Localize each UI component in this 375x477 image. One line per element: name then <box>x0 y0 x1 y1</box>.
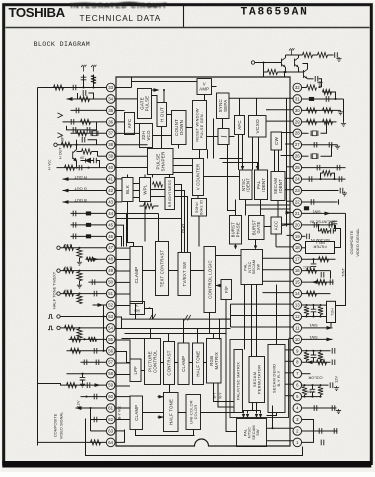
resistor pin49 v <box>77 272 82 281</box>
block VCXO <box>249 116 267 138</box>
wire lpf-picture <box>141 370 145 372</box>
pin 57 <box>106 358 115 367</box>
wire hatch marks b <box>185 315 191 321</box>
wire pin40 inner <box>116 168 148 175</box>
wire ht2 arrow b <box>158 416 164 418</box>
block COUNT DOWN <box>172 111 187 145</box>
wire pin64 inner <box>116 430 125 443</box>
block V COUNTER <box>193 159 204 196</box>
wire pin53 <box>61 315 107 317</box>
pin 29 <box>293 118 302 127</box>
wire pin25 <box>302 167 346 169</box>
block BLK <box>122 178 133 202</box>
wire rgbm-palntsc b <box>218 383 234 407</box>
wire acc right <box>282 224 294 226</box>
pin 20 <box>293 221 302 230</box>
pin 3 <box>293 415 302 424</box>
pin 16 <box>293 266 302 275</box>
pin 50 <box>106 278 115 287</box>
block CW <box>271 132 282 150</box>
block SYNC SEPA <box>217 93 230 119</box>
wire pin45 inner <box>116 225 124 246</box>
wire pin20 <box>302 224 334 226</box>
wire pin22 <box>302 201 338 203</box>
wire pin46 <box>71 235 107 237</box>
wire vco-count <box>153 135 172 137</box>
wire sw mid down c <box>256 285 258 357</box>
wire center verticals <box>230 304 232 327</box>
wire vcxo down b <box>258 137 260 170</box>
block LPF <box>130 359 141 382</box>
wire ident down b <box>260 200 262 216</box>
wire pin32 up <box>319 79 322 87</box>
pin 19 <box>293 232 302 241</box>
wire emitters join <box>285 67 287 72</box>
wire drop contrast <box>168 334 170 342</box>
pin 10 <box>293 335 302 344</box>
wire v-amp to sync <box>212 86 217 88</box>
wire pin20 stub <box>282 223 294 225</box>
wire pin35 afc <box>116 110 125 112</box>
wire hbus 1 <box>122 318 231 320</box>
wire pin14 <box>302 293 331 295</box>
wire halftone-rgbm <box>204 362 207 364</box>
wire pin22 stub <box>287 200 294 202</box>
pin 22 <box>293 198 302 207</box>
wire xray right <box>145 309 153 320</box>
wire blk down <box>128 202 134 247</box>
block integrator <box>218 129 229 145</box>
block UNI-COLOR <box>186 395 201 430</box>
block H OUT <box>157 103 167 127</box>
wire uni-palm <box>201 412 235 414</box>
wire pulse-shaper left <box>116 155 148 157</box>
pin 47 <box>106 243 115 252</box>
block BELL FILTER <box>306 242 335 254</box>
wire count-reset <box>186 127 193 129</box>
pin 38 <box>106 140 115 149</box>
wire afc2 down b <box>242 135 244 171</box>
block RGB MATRIX <box>207 339 222 384</box>
wire cw down <box>274 150 276 172</box>
wire rgb bus c <box>175 197 188 253</box>
wire pin42 G OUT <box>63 190 107 192</box>
wire tvext-logic <box>191 270 205 272</box>
block CLAMP 2 <box>178 343 189 385</box>
pin 36 <box>106 118 115 127</box>
wire id down <box>198 216 200 247</box>
pin 53 <box>106 312 115 321</box>
block 32H VCO <box>140 124 153 148</box>
wire pin36 <box>63 121 107 123</box>
left vertical rail <box>37 88 39 446</box>
pin 58 <box>106 369 115 378</box>
pin 18 <box>293 243 302 252</box>
wire pin31 upper <box>323 92 336 99</box>
wire burstphase up <box>235 200 237 216</box>
wire clamp2-halftone <box>189 362 193 364</box>
wire pin1 cap <box>321 440 324 446</box>
wire base rail <box>263 63 265 73</box>
crystal pin28 <box>302 132 309 134</box>
wire pin50 <box>89 281 107 283</box>
wire pin15 <box>302 281 334 283</box>
wire top rail <box>286 54 303 56</box>
pin 7 <box>293 369 302 378</box>
wire pin39 <box>98 155 107 157</box>
pin 14 <box>293 289 302 298</box>
block HALF TONE 1 <box>193 343 204 385</box>
pin 43 <box>106 198 115 207</box>
wire pin27 <box>302 144 338 146</box>
transistor H OUT <box>76 145 78 150</box>
wire pin44 inner <box>116 214 127 247</box>
wire pin36 afc <box>116 121 125 123</box>
pin 40 <box>106 163 115 172</box>
wire wpl-bright link <box>151 189 166 191</box>
wire pin30 vcxo <box>266 109 293 111</box>
wire right lower stubs <box>263 280 294 282</box>
block HGL <box>327 301 336 322</box>
wire pin41 R OUT <box>63 178 107 180</box>
wire afc2 up <box>239 98 241 115</box>
wire hatch marks a <box>150 314 156 320</box>
wire pin47 R IN <box>61 247 107 249</box>
resistor pin33 b <box>93 75 95 88</box>
pin 15 <box>293 278 302 287</box>
wire pin47 clamp <box>116 247 130 249</box>
wire pin29 <box>302 121 337 123</box>
wire bus 218 <box>116 218 182 220</box>
wire burstgate down <box>255 240 257 247</box>
wire pin27 inner <box>285 143 293 145</box>
wire sw2 right a <box>267 427 294 429</box>
wire reset-integ <box>207 136 219 138</box>
block HALF TONE 2 <box>164 393 179 432</box>
wire pin60 <box>81 396 107 398</box>
block TV EXT SW <box>178 253 191 296</box>
wire pin59 <box>38 384 107 386</box>
wire pin61 clamp3 <box>116 407 130 409</box>
wire pin59 stub <box>116 385 130 387</box>
wire hout-count <box>167 114 172 116</box>
pin 61 <box>106 404 115 413</box>
wire cw down b <box>278 150 280 172</box>
wire reset down b <box>207 150 209 159</box>
wire drop picture <box>150 329 152 339</box>
wire pin37 vco <box>116 132 140 134</box>
wire xray left <box>116 305 130 307</box>
block SECAM IDENT <box>271 172 285 201</box>
wire pin21 arrow <box>302 212 346 214</box>
pin 34 <box>106 95 115 104</box>
wire pin57 lpf <box>116 362 130 364</box>
wire pin36 lower <box>67 122 97 130</box>
pin 46 <box>106 232 115 241</box>
resistor pin51 v <box>77 295 82 304</box>
pin 8 <box>293 358 302 367</box>
offpage mark pin36 <box>58 113 63 118</box>
block PULSE SHAPER <box>148 149 174 175</box>
wire perm down <box>252 403 254 411</box>
wire logic-ff <box>216 285 222 287</box>
wire afc-vco <box>135 123 140 125</box>
resistor top b <box>318 52 328 57</box>
wire pin57 <box>81 361 107 363</box>
wire pin16 <box>302 270 331 272</box>
pin 5 <box>293 392 302 401</box>
wire rgb bus b <box>175 191 185 253</box>
offpage mark pin38 <box>58 133 63 138</box>
wire bell right <box>335 225 341 248</box>
wire pin43 B OUT <box>63 201 107 203</box>
block V AMP <box>197 79 212 95</box>
block PAL NTSC SECAM SW mid <box>241 250 263 285</box>
block BURST GATE <box>249 216 265 240</box>
wire ident down c <box>277 201 279 218</box>
wire shaper-vcounter <box>173 165 193 167</box>
wire ident feed a <box>220 159 243 167</box>
wire pin38 shaper <box>116 144 148 146</box>
pin 60 <box>106 392 115 401</box>
switch pin12 <box>302 315 327 317</box>
wire pin63 stub <box>116 430 125 432</box>
pin 39 <box>106 152 115 161</box>
wire sw2 right b <box>272 406 274 429</box>
SECAM section enclosure <box>230 340 289 418</box>
wire ht2-uni <box>178 412 186 414</box>
wire enclosure drop <box>219 319 221 339</box>
wire drop clamp2 <box>183 319 185 343</box>
wire pin63 <box>91 430 107 432</box>
wire pin58 lpf <box>116 374 130 376</box>
block SECAM DEMO <box>268 345 285 413</box>
pin 59 <box>106 381 115 390</box>
wire drop b <box>284 72 286 77</box>
wire pin7 <box>302 373 311 375</box>
crystal pin26 <box>302 155 309 157</box>
wire ident bus a <box>246 200 290 206</box>
wire syncsepa down <box>213 119 215 159</box>
wire pin54 bus <box>116 328 122 330</box>
pin 6 <box>293 381 302 390</box>
page border bottom band <box>2 461 371 468</box>
wire ff down <box>226 300 237 432</box>
pin 11 <box>293 324 302 333</box>
wire vcount-id <box>197 196 199 199</box>
wire pin40 <box>57 167 107 169</box>
block TEXT CONTRAST <box>156 242 169 296</box>
wire reset-vcount <box>199 150 201 159</box>
capacitor pin38 up <box>76 140 78 145</box>
wire pin5 <box>302 396 321 398</box>
pin 32 <box>293 83 302 92</box>
wire contrast-clamp2 <box>175 362 179 364</box>
wire pin62 clamp3 <box>116 419 130 421</box>
rail right upper <box>343 99 345 122</box>
wire picture-contrast <box>161 362 164 364</box>
wire pin56 lpf <box>116 352 130 363</box>
wire vcount right <box>204 176 240 178</box>
wire ff arrow <box>216 284 221 288</box>
wire demo up <box>276 285 278 345</box>
wire hbus 2 <box>122 328 231 330</box>
wire pin44 ext <box>158 214 160 242</box>
transistor Q2 <box>295 58 299 68</box>
wire rgbout stubs <box>116 178 122 180</box>
wire pin56 <box>67 350 107 352</box>
diode 3V cluster <box>81 160 86 162</box>
pin 45 <box>106 221 115 230</box>
switch pin11 <box>302 327 333 329</box>
wire gate-pulse right <box>152 96 158 103</box>
wire rail mid <box>313 54 318 56</box>
pin 42 <box>106 186 115 195</box>
pin 51 <box>106 289 115 298</box>
network pin6 <box>302 384 329 386</box>
pin 48 <box>106 255 115 264</box>
wire wpl-brightness res <box>153 182 163 187</box>
pin 2 <box>293 427 302 436</box>
wire pin37 <box>71 132 107 134</box>
pin 1 <box>293 438 302 447</box>
wire rgb bus a <box>175 185 182 253</box>
wire pin55 inner <box>116 340 130 359</box>
wire pin25 inner <box>287 166 294 168</box>
wire pin51 clamp <box>116 293 130 295</box>
wire ident feed b <box>223 163 258 167</box>
wire hout-shaper <box>161 127 163 149</box>
wire drop rgbmatrix <box>213 334 215 339</box>
wire pin17 <box>302 258 336 260</box>
wire pin20 rc branch <box>319 225 321 231</box>
wire res center <box>144 203 154 208</box>
wire vcxo down a <box>252 137 254 170</box>
wire bottom link <box>136 430 195 436</box>
block BRIGHTNESS <box>165 178 175 210</box>
wire ident down a <box>245 200 247 216</box>
wire blk top <box>127 175 129 178</box>
wire hbus 3 <box>125 333 227 335</box>
block PAL NTSC MATRIX <box>234 350 243 413</box>
capacitor pin33 a <box>83 75 85 88</box>
wire pin64 b <box>38 441 86 443</box>
wire right inner vertical <box>286 98 288 226</box>
block WPL <box>140 178 151 202</box>
pin 31 <box>293 95 302 104</box>
capacitor pin34 top <box>77 93 79 99</box>
resistor top a <box>303 52 313 57</box>
pin 13 <box>293 301 302 310</box>
transistor Q3 <box>304 69 308 79</box>
wire drop a <box>263 72 265 77</box>
wire pin18 bell <box>302 247 306 249</box>
wire pin48 arrow <box>86 258 107 260</box>
wire pin33 inner <box>116 87 132 89</box>
wire pin62 <box>91 418 107 420</box>
wire pin1 stub <box>267 440 294 442</box>
wire top bend <box>131 77 133 88</box>
wire pin8 <box>302 361 331 363</box>
pin 62 <box>106 415 115 424</box>
wire pin18 stub <box>275 234 277 247</box>
pin 52 <box>106 301 115 310</box>
wire pin49 clamp <box>116 270 130 272</box>
wire contrast-ht2 <box>169 385 171 393</box>
wire sw right stubs <box>263 257 294 259</box>
wire burstphase down <box>235 244 237 246</box>
pin 28 <box>293 129 302 138</box>
wire brightness top <box>169 175 171 178</box>
block ACC <box>271 217 282 234</box>
wire pin24 stub int <box>285 177 293 179</box>
wire sw mid down a <box>244 285 246 350</box>
wire pin4 <box>302 407 337 409</box>
wire logic down <box>209 313 211 334</box>
pin 9 <box>293 347 302 356</box>
wire shaper down a <box>152 175 154 178</box>
wire pin32 <box>302 87 307 89</box>
wire sync right bus <box>229 97 293 99</box>
wire clamp3-ht2 <box>143 412 164 414</box>
wire pin48 clamp <box>116 259 130 261</box>
wire pin60 clamp3 <box>116 396 130 398</box>
block CONTRAST <box>164 342 175 385</box>
wire pin49 G IN <box>61 270 107 272</box>
block 50Hz 60Hz ID <box>192 199 207 217</box>
wire wpl top <box>144 175 146 178</box>
pin 27 <box>293 140 302 149</box>
pin 24 <box>293 175 302 184</box>
block AFC 2 <box>235 116 245 135</box>
pin 4 <box>293 404 302 413</box>
pin 30 <box>293 106 302 115</box>
block PICTURE CONTROL <box>145 339 161 385</box>
wire pin38 <box>58 144 107 146</box>
wire sync-integ <box>222 119 224 129</box>
wire pin58 <box>67 373 107 375</box>
wire pin46 inner <box>116 237 122 247</box>
wire v-amp down <box>204 95 206 101</box>
wire pin29 vcxo <box>266 120 293 122</box>
block CLAMP 1 <box>130 247 143 304</box>
left subrail <box>103 305 105 351</box>
wire pin35 <box>71 109 107 111</box>
wire pin21 stub <box>287 212 294 214</box>
wire logic-sw <box>216 255 242 257</box>
smudged INTEGRATED CIRCUIT text <box>71 1 168 10</box>
block F F <box>221 280 232 300</box>
block PAL IDENT <box>255 170 268 200</box>
block BURST PHASE <box>230 216 242 245</box>
header rule <box>6 27 370 29</box>
block NTSC IDENT <box>240 170 253 200</box>
wire pin23 stub int <box>285 189 293 191</box>
wire pin9 <box>302 350 331 352</box>
pin 23 <box>293 186 302 195</box>
wire pin30 <box>302 109 341 111</box>
wire hbus 4 <box>122 338 145 340</box>
wire pin34 gate <box>116 98 138 100</box>
pin 56 <box>106 347 115 356</box>
wire composite rail <box>345 213 347 263</box>
wire blk-wpl <box>133 183 140 185</box>
wire pin64 <box>37 442 39 445</box>
wire pin28 cw <box>282 132 294 134</box>
wire sw mid down b <box>251 285 253 357</box>
wire pin19 <box>302 235 306 237</box>
wire bottom left vertical <box>86 419 303 456</box>
